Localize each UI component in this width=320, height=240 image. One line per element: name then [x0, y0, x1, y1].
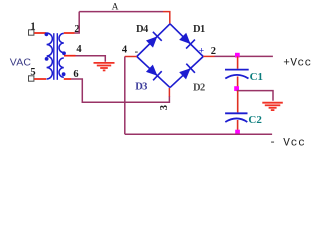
junction dot between C1 and C2	[234, 86, 239, 91]
ground symbol (center tap)	[94, 63, 115, 71]
capacitor C2 top plate	[225, 112, 247, 114]
wire mid junction to right ground	[237, 91, 273, 101]
svg-text:D2: D2	[193, 83, 205, 94]
diode D4 (left to top)	[145, 32, 162, 49]
svg-text:D1: D1	[193, 24, 205, 35]
capacitor C1 top plate	[225, 69, 249, 71]
port terminal 5	[29, 76, 34, 81]
diode D2 (bottom to right)	[178, 64, 195, 81]
diode D3 (left to bottom)	[145, 64, 162, 81]
svg-text:Vcc: Vcc	[283, 138, 306, 148]
transformer secondary winding upper	[59, 33, 64, 52]
svg-text:4: 4	[76, 44, 82, 55]
pin stub 2 (secondary top)	[64, 32, 75, 34]
red stub bridge right vertex	[203, 55, 214, 57]
svg-text:C2: C2	[248, 114, 262, 126]
pin stub 5	[34, 78, 46, 80]
transformer core	[54, 33, 58, 80]
bridge diamond edges	[137, 24, 203, 88]
transformer secondary winding lower	[59, 58, 64, 77]
red stub bridge pin 3	[168, 88, 170, 97]
wire C1 bottom to mid junction	[237, 77, 239, 88]
wire pin2 to corner	[75, 12, 80, 33]
transformer secondary polarity dot upper	[62, 51, 66, 55]
junction dot on bottom rail	[235, 130, 240, 135]
wire pin6 down and right to bridge bottom	[71, 79, 169, 102]
transformer primary winding	[47, 33, 53, 79]
svg-text:C1: C1	[250, 71, 263, 83]
svg-text:VAC: VAC	[10, 56, 32, 68]
port terminal 1	[29, 30, 34, 35]
ground symbol (output common)	[262, 103, 283, 110]
svg-text:3: 3	[159, 105, 170, 110]
pin stub 6 (secondary bottom)	[64, 78, 71, 80]
svg-text:A: A	[112, 3, 119, 13]
svg-text:D4: D4	[136, 24, 149, 35]
svg-text:4: 4	[122, 44, 128, 55]
bottom rail wire	[125, 133, 272, 135]
transformer primary polarity dot middle	[45, 57, 49, 61]
wire junction down to C1	[237, 56, 239, 68]
red stub bridge left vertex	[125, 56, 137, 58]
pin stub 1	[34, 32, 46, 34]
svg-text:5: 5	[30, 67, 35, 78]
svg-text:2: 2	[211, 46, 216, 57]
capacitor C2 curved plate	[225, 118, 247, 122]
transformer secondary polarity dot lower	[62, 72, 66, 76]
wire mid junction down to C2	[237, 91, 239, 112]
diode D1 (top to right)	[178, 32, 195, 49]
transformer primary polarity dot top	[45, 32, 49, 36]
svg-text:+: +	[199, 47, 204, 57]
svg-text:1: 1	[30, 21, 35, 32]
svg-text:+Vcc: +Vcc	[283, 58, 311, 70]
capacitor C1 curved plate	[225, 75, 248, 79]
wire center tap to ground	[76, 56, 106, 62]
svg-text:-: -	[269, 137, 276, 148]
wire plus output to +Vcc	[215, 55, 273, 57]
wire net A horizontal	[79, 11, 163, 13]
pin stub 4 (secondary center tap)	[64, 55, 76, 57]
wire C2 bottom to rail	[237, 120, 239, 133]
wire red segment into bridge top	[163, 12, 170, 24]
wire bridge minus down to bottom rail	[124, 57, 126, 135]
svg-text:D3: D3	[135, 81, 147, 92]
junction dot at C1 top	[235, 53, 240, 58]
